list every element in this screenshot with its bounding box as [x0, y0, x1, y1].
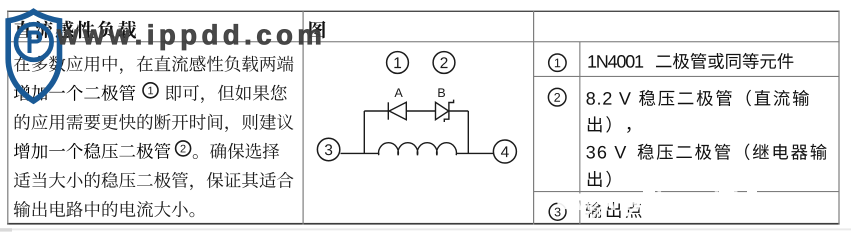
- right table row 2: circled 2: [548, 88, 566, 106]
- header: diagram column title: [309, 21, 325, 39]
- paragraph line 6: [14, 201, 195, 217]
- paragraph line 2: [14, 85, 135, 101]
- circled 2 in paragraph: [176, 141, 191, 156]
- node 3 (circled 3, left terminal): [317, 138, 339, 160]
- paragraph line 5: [14, 172, 294, 190]
- paragraph line 4: [14, 143, 171, 159]
- paragraph line 1: [14, 56, 294, 74]
- faint footer line: [0, 228, 851, 230]
- right table border: [838, 11, 839, 225]
- wire: between diode A and diode B: [406, 110, 435, 112]
- right table row 1 text: [588, 55, 643, 68]
- right row divider 2: [533, 191, 839, 192]
- right row divider 1: [533, 76, 839, 77]
- watermark text: [57, 24, 320, 50]
- faint left footer mark: [0, 228, 12, 231]
- paragraph line 3: [15, 114, 294, 132]
- header: left column title: [14, 21, 136, 39]
- wire: right vertical of snubber branch: [467, 111, 469, 153]
- label A (diode A designator): [394, 88, 402, 97]
- right table row 2 line 1: [586, 92, 630, 105]
- left table border: [7, 11, 8, 225]
- white notch on circled 3: [557, 203, 565, 209]
- right table row 2 line 4: [588, 171, 611, 188]
- wire: branch top right segment: [449, 110, 468, 112]
- diode A (cathode bar): [387, 102, 389, 119]
- zener diode B (zener bar with hooks): [444, 100, 453, 122]
- bottom white watermark dashes over divider: [643, 190, 757, 193]
- wire: main wire from coil to node 4: [456, 152, 493, 154]
- column divider 2: [533, 11, 534, 225]
- wire: main wire from node 3 to coil: [341, 152, 380, 154]
- node 2 (circled 2 over diode B): [433, 52, 455, 74]
- inductor L (relay coil, 4 humps): [379, 143, 457, 155]
- right table row 1: circled 1: [549, 54, 566, 71]
- table top border: [7, 11, 840, 12]
- label B (diode B designator): [438, 88, 445, 97]
- circled 1 in paragraph: [143, 83, 158, 98]
- right table row 3 text: [586, 202, 642, 218]
- diode A (triangle): [389, 102, 406, 119]
- right table inner divider: [579, 42, 580, 224]
- column divider 1: [303, 11, 304, 225]
- bottom white watermark text: [575, 191, 811, 215]
- node 1 (circled 1 over diode A): [387, 52, 409, 74]
- white gap in inner vertical divider (watermark): [579, 194, 581, 201]
- right table row 2 line 2: [588, 116, 631, 133]
- zener diode B (triangle): [436, 102, 449, 119]
- wire: left vertical of snubber branch: [363, 111, 365, 153]
- table bottom border: [7, 223, 840, 225]
- right table row 3: circled 3: [549, 203, 566, 220]
- wire: branch top left segment: [364, 110, 388, 112]
- white slashes over row 3 text: [583, 201, 640, 219]
- node 4 (circled 4, right terminal): [493, 140, 516, 163]
- right table row 2 line 3: [586, 146, 626, 159]
- watermark shield logo: [8, 12, 59, 102]
- table header divider line: [7, 41, 840, 42]
